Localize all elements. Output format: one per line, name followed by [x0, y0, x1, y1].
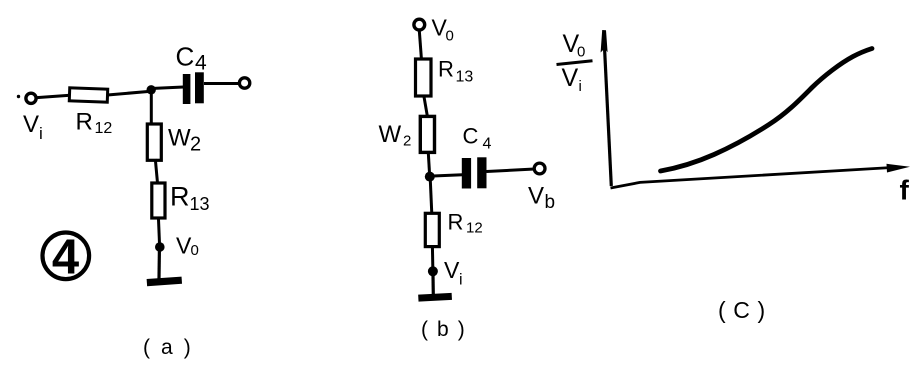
label V0/Vi fraction numerator — [563, 30, 586, 61]
wire Vi to ground — [431, 275, 434, 295]
svg-text:0: 0 — [446, 28, 454, 45]
svg-text:R: R — [76, 109, 93, 136]
svg-text:V: V — [528, 183, 544, 210]
ground — [147, 277, 182, 287]
svg-text:12: 12 — [95, 120, 113, 137]
wire node A to C4 — [151, 87, 184, 89]
wire W2 to R13 — [155, 159, 157, 184]
resistor R12 (b) — [425, 213, 439, 246]
wire node B down to R12 — [430, 180, 432, 214]
wire node A down to W2 — [150, 93, 153, 125]
svg-text:R: R — [448, 210, 464, 235]
svg-text:0: 0 — [191, 242, 199, 259]
svg-text:4: 4 — [52, 231, 79, 285]
wire R13 to node V0 — [158, 217, 159, 246]
x axis — [611, 164, 911, 188]
resistor R12 — [69, 88, 107, 102]
node Vi (junction dot) — [428, 266, 438, 276]
svg-text:R: R — [170, 182, 190, 212]
potentiometer W2 — [147, 124, 161, 160]
y axis — [601, 30, 612, 186]
svg-text:( C ): ( C ) — [718, 297, 766, 323]
wire R12 to node A — [108, 92, 149, 96]
fraction bar — [557, 61, 593, 65]
svg-text:V: V — [23, 111, 39, 138]
wire V0 to ground — [157, 250, 161, 279]
terminal Vb (open circle) — [534, 163, 545, 174]
figure number 4 (circled) — [43, 231, 90, 285]
svg-text:( a ): ( a ) — [143, 336, 193, 359]
wire node B to C4 — [433, 175, 463, 176]
wire W2 to node B — [428, 151, 429, 173]
svg-text:V: V — [444, 257, 460, 283]
svg-text:R: R — [438, 57, 454, 82]
svg-text:W: W — [379, 121, 402, 148]
wire C4 to terminal Vb — [487, 169, 535, 172]
wire V0 terminal to R13 — [419, 31, 421, 61]
node B (junction dot) — [425, 172, 435, 182]
svg-text:i: i — [579, 78, 582, 95]
response curve — [661, 49, 873, 172]
capacitor C4 (b) — [462, 157, 487, 188]
wire Vi terminal to R12 — [37, 95, 70, 97]
svg-text:( b ): ( b ) — [421, 318, 466, 341]
wire C4 to output terminal — [204, 82, 240, 85]
svg-text:4: 4 — [195, 52, 207, 75]
resistor R13 (b) — [416, 59, 432, 96]
svg-text:C: C — [463, 124, 479, 149]
ground (b) — [418, 293, 452, 302]
svg-text:13: 13 — [456, 69, 474, 86]
svg-text:f: f — [900, 175, 910, 206]
svg-text:2: 2 — [190, 134, 201, 156]
node A (junction dot) — [147, 85, 156, 94]
svg-text:b: b — [545, 192, 556, 213]
svg-text:0: 0 — [577, 44, 585, 61]
svg-text:4: 4 — [483, 136, 492, 153]
wire R13 to W2 — [424, 95, 428, 117]
svg-text:12: 12 — [466, 220, 483, 237]
wire R12 to node Vi — [431, 246, 434, 267]
svg-text:2: 2 — [403, 133, 411, 150]
label V0/Vi fraction denominator — [562, 64, 582, 95]
svg-text:13: 13 — [190, 194, 210, 214]
svg-text:W: W — [168, 125, 191, 152]
svg-text:C: C — [176, 42, 195, 72]
svg-text:i: i — [459, 272, 463, 289]
svg-text:V: V — [562, 64, 579, 92]
terminal Vi (input, open circle) — [17, 93, 36, 103]
node V0 (junction dot) — [155, 242, 165, 252]
capacitor C4 — [183, 72, 204, 104]
resistor R13 — [152, 183, 165, 218]
svg-text:i: i — [39, 124, 43, 143]
potentiometer W2 (b) — [420, 116, 434, 152]
terminal output (open circle) — [239, 78, 249, 88]
terminal V0 (top, open circle) — [414, 19, 425, 30]
